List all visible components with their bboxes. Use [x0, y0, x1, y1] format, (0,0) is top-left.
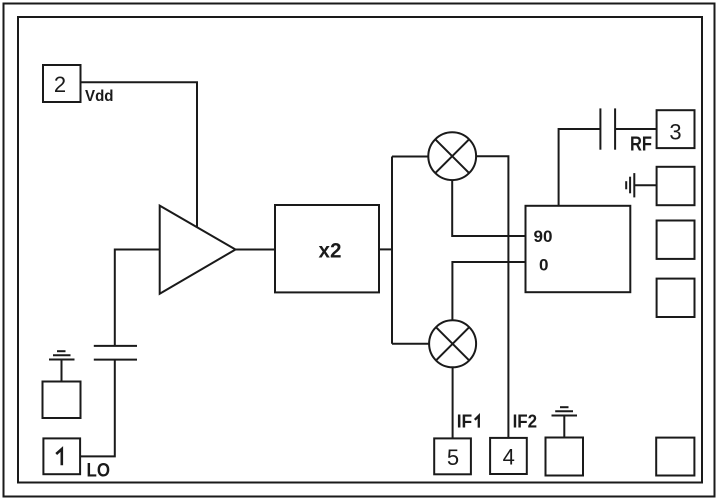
- frequency doubler x2: [275, 205, 379, 292]
- svg-text:3: 3: [669, 120, 681, 145]
- pin number 1: [56, 449, 62, 465]
- wire capacitor to port 1: [80, 360, 115, 457]
- svg-text:LO: LO: [87, 461, 111, 482]
- port pad 3: [657, 110, 695, 148]
- svg-text:0: 0: [539, 256, 548, 275]
- pad (grounded, bottom left): [43, 382, 81, 419]
- svg-text:90: 90: [534, 227, 553, 246]
- svg-text:4: 4: [503, 445, 515, 470]
- pad (grounded, right): [657, 167, 695, 205]
- op-amp A1 (LO buffer amplifier): [160, 206, 236, 294]
- pad (right, third): [657, 221, 695, 259]
- port pad 2: [43, 65, 81, 102]
- wire amplifier input: [115, 250, 160, 346]
- quadrature hybrid U1: [526, 206, 631, 292]
- wire doubler output: [379, 248, 392, 250]
- svg-text:RF: RF: [630, 134, 652, 156]
- svg-text:5: 5: [447, 445, 459, 470]
- svg-text:x2: x2: [319, 240, 342, 263]
- wire 0 port to mixer M2: [452, 262, 525, 320]
- wire hybrid to RF capacitor: [559, 129, 601, 206]
- svg-text:Vdd: Vdd: [85, 88, 114, 105]
- port pad 1: [43, 438, 80, 474]
- svg-text:IF: IF: [457, 412, 473, 432]
- svg-text:IF2: IF2: [513, 412, 538, 432]
- wire Vdd to amplifier: [81, 82, 198, 227]
- pad (right, fourth): [657, 279, 695, 317]
- pad (bottom right): [656, 438, 694, 476]
- capacitor C1 (LO DC block): [94, 346, 137, 360]
- wire capacitor to port 3: [615, 128, 657, 130]
- wire to mixer M1: [392, 156, 428, 158]
- wire amplifier output: [236, 249, 276, 251]
- ground (bottom left): [49, 351, 75, 381]
- wire to mixer M2: [392, 343, 429, 345]
- ground (right, rotated): [626, 173, 656, 197]
- mixer M2 (lower): [429, 320, 476, 367]
- wire LO split (vertical): [391, 157, 393, 344]
- capacitor C2 (RF DC block): [600, 108, 615, 149]
- port pad 4: [490, 438, 527, 474]
- port pad 5: [434, 438, 471, 474]
- ground (bottom middle): [552, 407, 578, 437]
- svg-text:2: 2: [54, 72, 66, 97]
- wire mixer M1 to IF2 port: [477, 156, 509, 438]
- pad (grounded, bottom middle): [546, 438, 584, 476]
- wire mixer M2 to IF1 port: [452, 368, 454, 439]
- wire mixer M1 to 90 port: [452, 181, 525, 236]
- mixer M1 (upper): [428, 132, 476, 180]
